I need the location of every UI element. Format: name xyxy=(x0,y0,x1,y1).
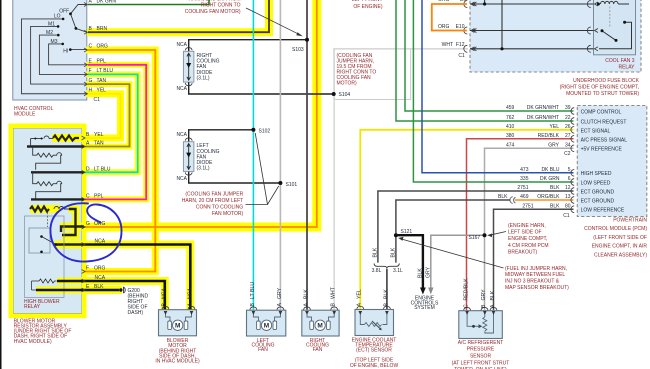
19.5cm annotation xyxy=(337,53,377,87)
svg-text:(3.1L): (3.1L) xyxy=(197,75,210,81)
svg-text:DK BLU: DK BLU xyxy=(541,167,559,173)
wire GRY vertical xyxy=(279,0,281,310)
svg-text:3.1L: 3.1L xyxy=(393,268,403,274)
svg-text:NCA: NCA xyxy=(176,176,187,182)
svg-text:WHT: WHT xyxy=(442,42,453,48)
switch dots xyxy=(57,12,78,50)
svg-text:M: M xyxy=(264,323,269,330)
svg-text:PPL: PPL xyxy=(94,194,104,200)
engine harn annotation xyxy=(508,223,549,255)
svg-text:F12: F12 xyxy=(456,42,465,48)
PCM wire 474 GRY xyxy=(485,148,574,310)
svg-text:COOL FAN 3: COOL FAN 3 xyxy=(605,58,634,64)
svg-text:CONN TO COOLING: CONN TO COOLING xyxy=(196,205,243,211)
right cooling fan box xyxy=(302,310,339,336)
resistor internals xyxy=(30,136,79,212)
svg-text:HIGH SPEED: HIGH SPEED xyxy=(581,171,612,177)
HVAC terminal arrows xyxy=(84,3,88,96)
svg-text:ORG: ORG xyxy=(438,0,450,3)
svg-text:LT BLU: LT BLU xyxy=(94,166,111,172)
svg-text:S104: S104 xyxy=(339,92,351,98)
svg-text:A/C PRESS SIGNAL: A/C PRESS SIGNAL xyxy=(581,137,628,143)
svg-text:LOW REFERENCE: LOW REFERENCE xyxy=(581,208,625,214)
fuse block pin arcs and arrows xyxy=(464,1,598,53)
diode R wires xyxy=(189,40,306,51)
svg-text:LT BLU: LT BLU xyxy=(250,282,256,299)
svg-text:C1: C1 xyxy=(458,53,465,59)
PCM wire 2751 BLK pin12 xyxy=(378,191,574,263)
svg-text:A: A xyxy=(490,304,496,308)
svg-text:SYSTEM: SYSTEM xyxy=(414,305,435,311)
svg-text:3.8L: 3.8L xyxy=(372,268,382,274)
svg-text:B: B xyxy=(161,303,167,307)
svg-text:CLEANER ASSEMBLY): CLEANER ASSEMBLY) xyxy=(594,252,647,258)
PCM wire 2751 BLK pin80 xyxy=(494,209,574,310)
svg-text:ECT GROUND: ECT GROUND xyxy=(581,198,615,204)
svg-text:DK GRN: DK GRN xyxy=(540,176,560,182)
svg-text:S101: S101 xyxy=(286,182,298,188)
thin resistor chain xyxy=(31,136,69,209)
svg-text:BLK: BLK xyxy=(390,247,396,257)
svg-text:TAN: TAN xyxy=(97,78,107,84)
ECT name xyxy=(350,337,399,369)
svg-text:B: B xyxy=(481,304,487,308)
svg-text:CLUTCH REQUEST: CLUTCH REQUEST xyxy=(581,119,627,125)
wire NCA bold to blower A xyxy=(84,245,190,311)
svg-text:DK GRN/WHT: DK GRN/WHT xyxy=(527,115,559,121)
highlight wire C ORG to F ORG xyxy=(84,50,155,272)
svg-text:12: 12 xyxy=(565,185,571,191)
diode R symbol xyxy=(187,53,191,80)
svg-text:COMP CONTROL: COMP CONTROL xyxy=(581,109,622,115)
svg-text:BLK: BLK xyxy=(372,247,378,257)
svg-text:(AT LEFT FRONT STRUT: (AT LEFT FRONT STRUT xyxy=(452,360,510,366)
wire ORG loop B6-E10 xyxy=(432,4,467,31)
PCM wire labels bottom group xyxy=(498,167,571,219)
svg-text:LOW SPEED: LOW SPEED xyxy=(581,180,611,186)
svg-text:2751: 2751 xyxy=(522,203,533,209)
HVAC control module xyxy=(13,0,87,100)
left cooling fan box xyxy=(247,310,286,336)
svg-text:HVAC MODULE): HVAC MODULE) xyxy=(14,339,52,345)
svg-text:34: 34 xyxy=(565,142,571,148)
wire B BRN core xyxy=(88,0,269,32)
wire G TAN core xyxy=(84,84,130,146)
svg-text:B: B xyxy=(250,303,256,307)
wire H YEL core xyxy=(84,94,121,138)
svg-text:M2: M2 xyxy=(46,30,53,36)
svg-text:RED/BLK: RED/BLK xyxy=(538,133,560,139)
ECT brace xyxy=(374,264,399,269)
svg-text:B: B xyxy=(331,303,337,307)
svg-text:YEL: YEL xyxy=(94,132,104,138)
svg-text:BRN: BRN xyxy=(97,26,108,32)
HVAC switch internals xyxy=(22,5,87,94)
svg-text:RELAY: RELAY xyxy=(618,65,635,71)
PCM pin arcs xyxy=(571,108,574,213)
left fan name xyxy=(251,338,274,353)
blower motor box xyxy=(159,310,197,336)
relay COOL FAN 3 internals xyxy=(599,1,632,48)
wire G ORG core xyxy=(84,0,317,227)
svg-text:MIDWAY BETWEEN FUEL: MIDWAY BETWEEN FUEL xyxy=(505,272,565,278)
A/C sensor name xyxy=(452,340,510,369)
svg-text:C: C xyxy=(89,43,93,49)
svg-text:MOUNTED TO STRUT TOWER): MOUNTED TO STRUT TOWER) xyxy=(566,91,639,97)
blower motor symbol xyxy=(166,313,192,331)
svg-text:(RIGHT SIDE OF ENGINE COMPT,: (RIGHT SIDE OF ENGINE COMPT, xyxy=(560,85,639,91)
svg-text:POWERTRAIN: POWERTRAIN xyxy=(613,218,647,224)
svg-text:G: G xyxy=(89,78,93,84)
highlight resistor box border xyxy=(11,126,84,316)
blower motor name xyxy=(155,338,200,365)
svg-text:G: G xyxy=(86,221,90,227)
node S104 xyxy=(332,92,336,96)
svg-text:ORG: ORG xyxy=(94,266,106,272)
svg-text:13: 13 xyxy=(565,194,571,200)
highlight wire NCA to blower B xyxy=(84,281,165,310)
svg-text:(ENGINE HARN,: (ENGINE HARN, xyxy=(508,223,546,229)
node S102 xyxy=(251,128,255,132)
svg-text:5: 5 xyxy=(568,167,571,173)
svg-text:BLK: BLK xyxy=(383,289,389,299)
svg-text:D: D xyxy=(86,166,90,172)
A/C sensor internals xyxy=(467,313,493,334)
relay and fuse block names xyxy=(560,58,640,97)
A/C refrigerant pressure sensor box xyxy=(459,311,503,339)
svg-text:DK GRN: DK GRN xyxy=(97,0,117,5)
svg-text:MOTOR): MOTOR) xyxy=(337,81,358,87)
svg-text:BLK: BLK xyxy=(550,185,560,191)
svg-text:FAN MOTOR): FAN MOTOR) xyxy=(212,211,244,217)
svg-text:UNDERHOOD FUSE BLOCK: UNDERHOOD FUSE BLOCK xyxy=(573,78,640,84)
svg-text:PRESSURE: PRESSURE xyxy=(467,347,495,353)
svg-text:27: 27 xyxy=(565,133,571,139)
right fan name xyxy=(306,338,329,353)
svg-text:RIGHT CONN TO: RIGHT CONN TO xyxy=(201,2,241,8)
resistor terminal arrows xyxy=(82,136,86,292)
PCM wire 335 DK GRN xyxy=(413,0,573,182)
svg-text:(COOLING FAN JUMPER: (COOLING FAN JUMPER xyxy=(185,191,243,197)
svg-text:RELAY: RELAY xyxy=(24,304,41,310)
svg-text:BLK: BLK xyxy=(417,268,423,278)
node S121 xyxy=(394,233,398,237)
top annotation left (cut) xyxy=(185,0,241,15)
svg-text:DK GRN/WHT: DK GRN/WHT xyxy=(527,105,559,111)
wire A DK GRN xyxy=(88,0,209,5)
svg-text:MAP SENSOR BREAKOUT): MAP SENSOR BREAKOUT) xyxy=(505,285,569,291)
svg-text:SENSOR: SENSOR xyxy=(470,353,492,359)
PCM name xyxy=(584,218,647,259)
svg-text:+5V REFERENCE: +5V REFERENCE xyxy=(581,147,623,153)
svg-text:C: C xyxy=(464,304,470,308)
svg-text:GRY: GRY xyxy=(425,266,431,278)
svg-text:COOLING FAN MOTOR): COOLING FAN MOTOR) xyxy=(185,9,241,15)
leader to S167 xyxy=(489,232,506,236)
svg-text:NCA: NCA xyxy=(176,132,187,138)
high blower relay internals xyxy=(25,213,65,298)
svg-text:WHT: WHT xyxy=(331,286,337,299)
svg-text:459: 459 xyxy=(506,105,515,111)
svg-text:BLK: BLK xyxy=(550,203,560,209)
PCM wire 410 YEL and ECT A xyxy=(360,130,573,310)
svg-text:ENGINE COMPT,: ENGINE COMPT, xyxy=(508,236,547,242)
annotation box 19.5CM xyxy=(334,49,411,100)
left cooling fan diode L box xyxy=(183,142,194,172)
GRY branch to engine controls xyxy=(431,235,485,288)
ECT sensor box xyxy=(355,310,394,336)
highlight wire E PPL to C PPL xyxy=(84,65,146,200)
highlight wire NCA to blower A xyxy=(84,245,190,311)
highlight resistor internals xyxy=(52,134,82,142)
BLK branch to engine controls xyxy=(396,235,423,288)
svg-text:DASH): DASH) xyxy=(128,310,144,316)
20cm annotation xyxy=(182,191,244,217)
fuse block internal rows xyxy=(470,0,594,49)
svg-text:BLK: BLK xyxy=(303,289,309,299)
svg-text:H: H xyxy=(89,88,93,94)
PCM box xyxy=(577,106,647,217)
leader to S101 S102 xyxy=(246,133,279,205)
wire F LT BLU core xyxy=(84,74,138,172)
svg-text:F: F xyxy=(86,266,89,272)
wire WHT from F12 xyxy=(334,49,468,310)
svg-text:YEL: YEL xyxy=(356,289,362,299)
wire E PPL core xyxy=(84,65,146,200)
svg-text:410: 410 xyxy=(506,124,515,130)
svg-text:MODULE: MODULE xyxy=(14,112,36,118)
svg-text:473: 473 xyxy=(520,167,529,173)
HIGHLIGHTS xyxy=(11,0,317,316)
svg-text:F: F xyxy=(89,68,92,74)
svg-text:YEL: YEL xyxy=(97,88,107,94)
node S167 xyxy=(483,233,487,237)
blower entry arrows xyxy=(164,311,194,315)
left fan motor symbol xyxy=(253,313,280,331)
fuel inj annotation xyxy=(505,266,569,291)
svg-text:OF ENGINE, BELOW: OF ENGINE, BELOW xyxy=(350,363,399,369)
underhood fuse block xyxy=(470,0,641,72)
svg-text:(ECT) SENSOR: (ECT) SENSOR xyxy=(356,348,392,354)
highlight wire E BLK to G200 xyxy=(84,286,122,294)
svg-text:M3: M3 xyxy=(51,39,58,45)
svg-text:BREAKOUT): BREAKOUT) xyxy=(508,249,538,255)
hand-drawn blue circle annotation xyxy=(50,203,121,261)
svg-text:S167: S167 xyxy=(469,235,481,241)
PCM wire 473 DK BLU xyxy=(422,0,574,173)
PCM wire 762 DK GRN/WHT xyxy=(396,0,574,121)
svg-text:ECT SIGNAL: ECT SIGNAL xyxy=(581,128,611,134)
svg-text:TAN: TAN xyxy=(94,141,104,147)
svg-text:ORG: ORG xyxy=(438,24,450,30)
fuse block pin labels xyxy=(438,0,466,59)
svg-text:C: C xyxy=(86,194,90,200)
svg-text:80: 80 xyxy=(565,203,571,209)
diode L symbol xyxy=(187,144,191,170)
svg-text:469: 469 xyxy=(520,194,529,200)
svg-text:M: M xyxy=(317,323,322,330)
svg-text:FAN: FAN xyxy=(258,347,268,353)
svg-text:474: 474 xyxy=(506,142,515,148)
motor letters xyxy=(175,323,323,330)
svg-text:A/C REFRIGERENT: A/C REFRIGERENT xyxy=(458,340,504,346)
leader to S121 xyxy=(401,239,504,268)
svg-text:BLK: BLK xyxy=(498,194,508,200)
node S101 xyxy=(278,181,282,185)
rotated wire labels xyxy=(161,247,496,308)
svg-text:NCA: NCA xyxy=(176,42,187,48)
svg-text:26: 26 xyxy=(565,124,571,130)
svg-text:NCA: NCA xyxy=(161,288,167,299)
PCM wire BLK/469 ORG BLK pin13 xyxy=(396,200,511,263)
svg-text:LO: LO xyxy=(54,14,61,20)
svg-text:LT BLU: LT BLU xyxy=(97,68,114,74)
svg-text:HARN, 20 CM FROM LEFT: HARN, 20 CM FROM LEFT xyxy=(182,198,243,204)
svg-text:HI: HI xyxy=(63,49,68,55)
svg-text:A: A xyxy=(303,303,309,307)
svg-text:BLK: BLK xyxy=(94,284,104,290)
svg-text:LEFT FRONT: LEFT FRONT xyxy=(352,0,383,3)
svg-text:LEFT SIDE OF: LEFT SIDE OF xyxy=(508,230,542,236)
svg-text:OFF: OFF xyxy=(59,8,69,14)
top annotation right (cut) xyxy=(352,0,383,10)
svg-text:OF ENGINE): OF ENGINE) xyxy=(353,4,383,10)
svg-text:B: B xyxy=(383,303,389,307)
wire C ORG core xyxy=(84,50,155,272)
right fan motor symbol xyxy=(307,313,334,331)
svg-text:S102: S102 xyxy=(259,129,271,135)
svg-text:IN HVAC MODULE): IN HVAC MODULE) xyxy=(155,359,200,365)
highlight wire G TAN to A TAN xyxy=(84,84,130,146)
svg-text:A: A xyxy=(277,303,283,307)
svg-text:762: 762 xyxy=(506,115,515,121)
svg-text:2751: 2751 xyxy=(517,185,528,191)
svg-text:(LEFT FRONT SIDE OF: (LEFT FRONT SIDE OF xyxy=(593,235,647,241)
svg-text:C1: C1 xyxy=(94,97,101,103)
node S103 xyxy=(305,38,309,42)
motor entry arcs xyxy=(162,306,497,310)
svg-text:A: A xyxy=(356,303,362,307)
svg-text:22: 22 xyxy=(565,115,571,121)
wire LT BLU vertical xyxy=(252,0,254,310)
svg-text:ORG/BLK: ORG/BLK xyxy=(537,194,560,200)
svg-text:NCA: NCA xyxy=(187,288,193,299)
svg-text:ORG: ORG xyxy=(97,43,109,49)
leader to S103 xyxy=(246,8,300,35)
svg-text:(3.1L): (3.1L) xyxy=(197,166,210,172)
svg-text:GRY: GRY xyxy=(481,289,487,301)
svg-text:GRY: GRY xyxy=(277,287,283,299)
svg-text:NCA: NCA xyxy=(95,239,106,245)
inline connector arcs xyxy=(510,197,516,204)
wire E BLK bold xyxy=(84,289,119,292)
svg-text:YEL: YEL xyxy=(550,124,560,130)
svg-text:4 CM FROM PCM: 4 CM FROM PCM xyxy=(508,243,549,249)
diode L wires xyxy=(189,130,253,142)
cool fan 3 relay box xyxy=(594,0,636,55)
svg-text:M1: M1 xyxy=(48,22,55,28)
svg-text:ENGINE COMPT, IN AIR: ENGINE COMPT, IN AIR xyxy=(592,244,648,250)
svg-text:INJ NO 3 BREAKOUT &: INJ NO 3 BREAKOUT & xyxy=(505,279,560,285)
svg-text:B6: B6 xyxy=(460,0,466,3)
ground G200 symbol xyxy=(119,288,122,291)
highlight wire BRN B xyxy=(87,0,269,32)
ECT B BLK stub xyxy=(386,269,388,310)
PCM wire 459 DK GRN/WHT xyxy=(405,0,574,111)
svg-text:E10: E10 xyxy=(456,24,465,30)
svg-text:380: 380 xyxy=(506,133,515,139)
svg-text:ECT GROUND: ECT GROUND xyxy=(581,189,615,195)
svg-text:S121: S121 xyxy=(401,229,413,235)
svg-text:A: A xyxy=(187,303,193,307)
svg-text:39: 39 xyxy=(565,105,571,111)
wire NCA bold to blower B xyxy=(84,281,165,310)
svg-text:C1: C1 xyxy=(563,213,570,219)
svg-text:NCA: NCA xyxy=(176,86,187,92)
connector arcs diode R xyxy=(185,48,192,51)
svg-text:6: 6 xyxy=(568,176,571,182)
page edge line xyxy=(0,0,2,369)
blower resistor assembly box fill xyxy=(13,128,82,314)
svg-text:S103: S103 xyxy=(292,47,304,53)
svg-text:BLK: BLK xyxy=(490,290,496,300)
svg-text:FAN: FAN xyxy=(313,347,323,353)
ECT internals xyxy=(360,313,387,327)
wire BLK vertical xyxy=(306,0,308,310)
PCM wire labels top group xyxy=(506,105,571,157)
PCM wire 380 RED/BLK xyxy=(467,139,574,310)
highlight wire F LT BLU to D LT BLU xyxy=(84,74,138,172)
svg-text:RED/BLK: RED/BLK xyxy=(464,278,470,301)
svg-text:335: 335 xyxy=(520,176,529,182)
svg-text:NCA: NCA xyxy=(95,275,106,281)
svg-text:(FUEL INJ JUMPER HARN,: (FUEL INJ JUMPER HARN, xyxy=(505,266,567,272)
svg-text:M: M xyxy=(175,323,180,330)
svg-text:C2: C2 xyxy=(564,151,571,157)
highlight wire H YEL to B YEL xyxy=(84,94,121,138)
right cooling fan diode R box xyxy=(183,51,194,82)
svg-text:PPL: PPL xyxy=(97,59,107,65)
svg-text:CONTROL MODULE (PCM): CONTROL MODULE (PCM) xyxy=(584,226,647,232)
svg-text:GRY: GRY xyxy=(548,142,559,148)
HVAC switch position labels xyxy=(46,8,69,54)
highlight wire G ORG up xyxy=(84,0,317,227)
engine controls system xyxy=(411,296,439,311)
